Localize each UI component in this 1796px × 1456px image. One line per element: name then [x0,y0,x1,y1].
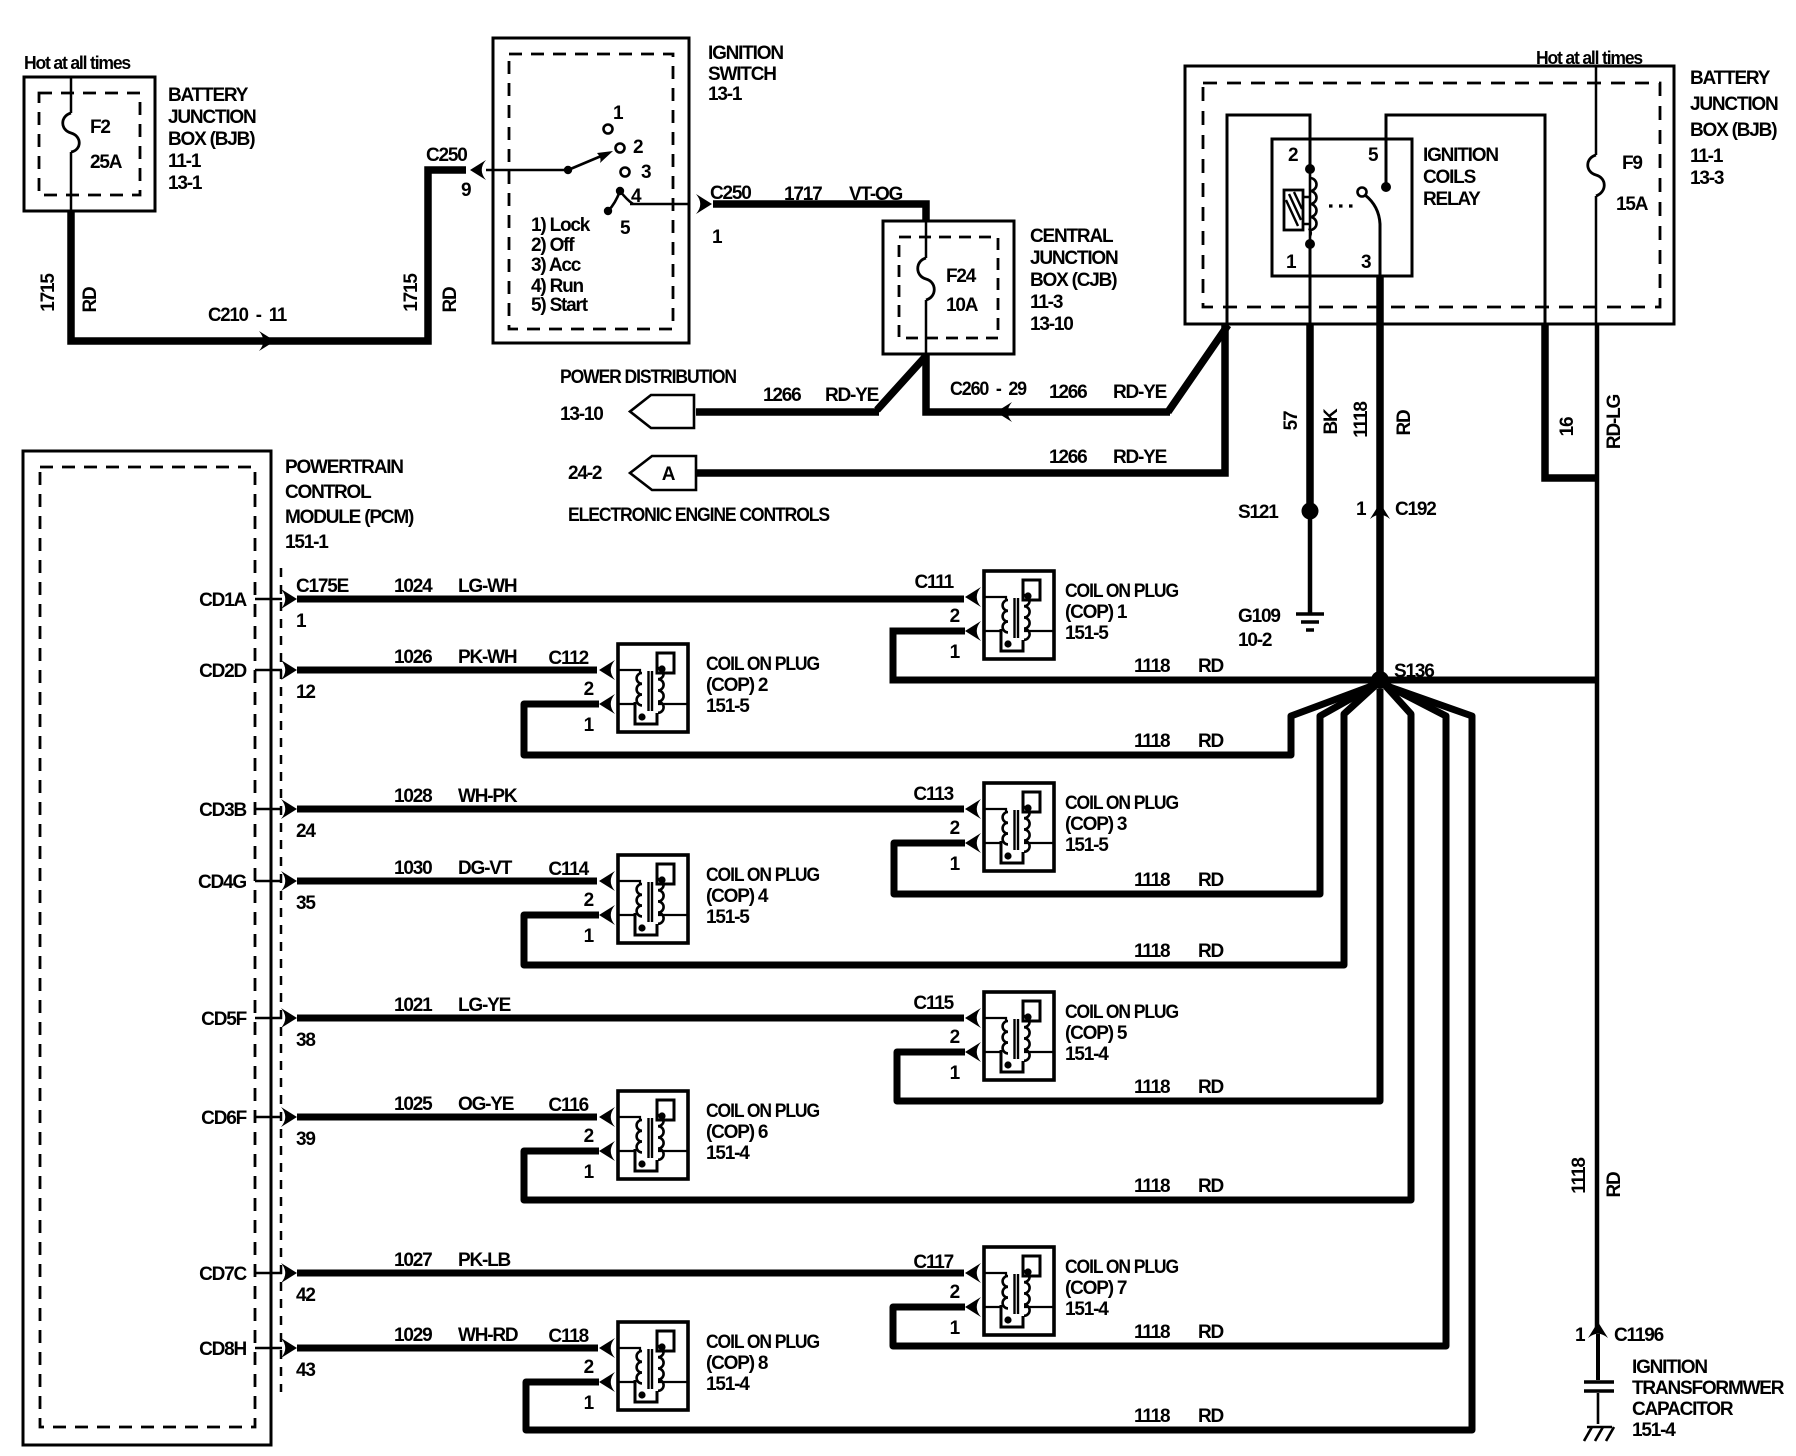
pentagon flag: A (ELECTRONIC ENGINE CONTROLS) [630,456,696,490]
svg-text:C111: C111 [914,572,954,593]
svg-text:RD-YE: RD-YE [825,385,879,406]
ground G109 symbol [1296,614,1324,630]
svg-text:(COP) 1: (COP) 1 [1065,602,1128,623]
svg-text:COIL ON PLUG: COIL ON PLUG [1065,793,1178,814]
wire 1715 RD: BJB down and across to C210-11 and up to C250 [71,170,466,341]
svg-text:JUNCTION: JUNCTION [168,107,256,128]
svg-text:1118: 1118 [1351,402,1372,438]
svg-text:C210 - 11: C210 - 11 [208,305,288,326]
svg-text:JUNCTION: JUNCTION [1030,248,1118,269]
svg-text:1028: 1028 [394,786,432,807]
svg-text:IGNITION: IGNITION [708,43,783,64]
svg-text:1118: 1118 [1134,1077,1170,1098]
wire 1118 RD: COP2 pin 1 return to S136 [524,684,1377,755]
wire 1026 PK-WH: CD2D to C112 [297,667,597,674]
svg-text:COILS: COILS [1423,167,1476,188]
svg-text:WH-RD: WH-RD [458,1325,518,1346]
svg-text:RD: RD [80,287,101,313]
switch contact 2 [616,144,625,153]
svg-text:A: A [662,464,676,485]
connector arrow C250 pin 9 (left of ignition switch) [470,160,486,180]
wire: fuse F24 output to box bottom [925,300,928,354]
svg-text:2) Off: 2) Off [531,235,575,256]
svg-text:F2: F2 [90,117,110,138]
wire: fuse F2 output inside BJB [70,152,73,211]
svg-text:1: 1 [296,611,307,632]
svg-text:CD4G: CD4G [198,872,246,893]
wire 1118 RD: COP3 pin 1 return to S136 [894,684,1377,894]
svg-text:1026: 1026 [394,647,432,668]
svg-text:1: 1 [584,715,595,736]
svg-text:42: 42 [296,1285,315,1306]
switch contact 4 [616,187,624,195]
svg-text:RD: RD [1198,1406,1224,1427]
svg-text:57: 57 [1281,411,1302,430]
wire 1266 RD-YE: to POWER DISTRIBUTION [696,357,925,412]
svg-text:DG-VT: DG-VT [458,858,513,879]
svg-text:BOX (CJB): BOX (CJB) [1030,270,1117,291]
svg-text:16: 16 [1557,417,1578,436]
svg-text:1: 1 [712,227,723,248]
svg-text:CD5F: CD5F [201,1009,246,1030]
svg-text:C118: C118 [548,1326,588,1347]
svg-text:1: 1 [584,926,595,947]
svg-text:1: 1 [950,642,961,663]
svg-text:CD7C: CD7C [199,1264,247,1285]
svg-text:1024: 1024 [394,576,433,597]
relay switch contact circle [1358,188,1367,197]
svg-text:C1196: C1196 [1614,1325,1664,1346]
svg-text:RD: RD [1198,1322,1224,1343]
svg-text:1118: 1118 [1569,1158,1590,1194]
svg-text:F24: F24 [946,266,977,287]
switch contact 4-5 hook [608,191,633,211]
svg-text:POWER DISTRIBUTION: POWER DISTRIBUTION [560,367,736,388]
fuse F24 10A [918,258,935,300]
wire 1025 OG-YE: CD6F to C116 [297,1114,597,1121]
node: relay pin 2 junction [1305,164,1315,174]
svg-text:13-10: 13-10 [1030,314,1073,335]
svg-text:13-1: 13-1 [168,173,203,194]
svg-text:1: 1 [950,1063,961,1084]
wire: F9 output down through box [1595,196,1598,324]
svg-text:CONTROL: CONTROL [285,482,372,503]
node: splice S121 [1302,503,1319,520]
svg-text:1715: 1715 [401,273,422,312]
svg-text:39: 39 [296,1129,315,1150]
connector arrow C210-11 [259,331,275,351]
svg-text:1) Lock: 1) Lock [531,215,591,236]
pentagon flag: POWER DISTRIBUTION 13-10 [630,395,694,428]
svg-text:2: 2 [950,606,960,627]
svg-text:CENTRAL: CENTRAL [1030,226,1114,247]
label: IGNITION SWITCH 13-1 [708,43,783,105]
svg-text:3) Acc: 3) Acc [531,255,582,276]
svg-text:1266: 1266 [1049,382,1087,403]
svg-text:CD3B: CD3B [199,800,246,821]
svg-text:1118: 1118 [1134,1322,1170,1343]
node: splice S136 [1371,671,1389,689]
svg-text:11-1: 11-1 [168,151,202,172]
node: PCM pin CD2D [199,660,315,703]
label: IGNITION COILS RELAY [1423,145,1498,210]
connector arrow C192 pin 1 [1370,503,1390,519]
svg-text:COIL ON PLUG: COIL ON PLUG [1065,1257,1178,1278]
svg-text:C115: C115 [913,993,954,1014]
node: PCM pin CD4G [198,871,316,914]
svg-text:24-2: 24-2 [568,463,602,484]
svg-text:CAPACITOR: CAPACITOR [1632,1399,1734,1420]
svg-text:ELECTRONIC ENGINE CONTROLS: ELECTRONIC ENGINE CONTROLS [568,505,829,526]
svg-text:CD6F: CD6F [201,1108,246,1129]
svg-text:(COP) 4: (COP) 4 [706,886,769,907]
coil on plug (COP) 1 [914,571,1178,663]
svg-text:151-4: 151-4 [706,1374,750,1395]
node: relay pin 5 junction [1381,182,1391,192]
svg-text:SWITCH: SWITCH [708,64,776,85]
svg-text:1: 1 [1286,252,1297,273]
svg-text:10-2: 10-2 [1238,630,1272,651]
wire: S121 to ground G109 [1308,511,1313,613]
wire 16 RD-LG: relay pin 5 rail below box with jog [1545,324,1597,478]
wire: feed into fuse F2 [70,77,73,113]
switch wiper pivot [564,166,572,174]
svg-text:2: 2 [584,1126,594,1147]
ignition coils relay housing box [1272,139,1412,276]
coil on plug (COP) 3 [913,783,1178,875]
wire 1266 RD-YE: A flag to relay box corner [696,324,1225,473]
svg-text:10A: 10A [946,295,979,316]
svg-text:25A: 25A [90,152,123,173]
switch wiper arrowhead [597,151,613,163]
switch contact 1 [604,125,613,134]
svg-text:RD: RD [1198,656,1224,677]
svg-text:RELAY: RELAY [1423,189,1481,210]
central junction box (CJB) outer box [883,221,1014,354]
svg-text:S136: S136 [1394,661,1434,682]
svg-text:13-10: 13-10 [560,404,603,425]
svg-text:151-4: 151-4 [1065,1044,1109,1065]
label: IGNITION TRANSFORMWER CAPACITOR 151-4 [1632,1357,1785,1441]
svg-text:2: 2 [633,137,643,158]
svg-text:CD1A: CD1A [199,590,247,611]
svg-text:BOX (BJB): BOX (BJB) [1690,120,1777,141]
svg-text:COIL ON PLUG: COIL ON PLUG [1065,581,1178,602]
powertrain control module (PCM) inner dashed box [40,467,255,1427]
svg-text:(COP) 5: (COP) 5 [1065,1023,1128,1044]
svg-text:JUNCTION: JUNCTION [1690,94,1778,115]
battery junction box (BJB) top-right inner dashed box [1203,83,1660,307]
svg-text:WH-PK: WH-PK [458,786,518,807]
connector arrow C250 pin 1 (right of ignition switch) [696,194,712,214]
svg-text:38: 38 [296,1030,315,1051]
svg-text:1: 1 [950,1318,961,1339]
svg-text:5) Start: 5) Start [531,295,589,316]
node: PCM pin CD1A [199,589,307,632]
wire 1118 RD: COP7 pin 1 return to S136 [893,684,1446,1346]
svg-text:COIL ON PLUG: COIL ON PLUG [1065,1002,1178,1023]
svg-text:1118: 1118 [1134,941,1170,962]
svg-text:C114: C114 [548,859,589,880]
svg-text:RD: RD [1198,870,1224,891]
svg-text:151-4: 151-4 [1632,1420,1676,1441]
svg-text:(COP) 7: (COP) 7 [1065,1278,1127,1299]
wire 1024 LG-WH: CD1A to C111 [297,596,964,603]
svg-text:43: 43 [296,1360,315,1381]
coil on plug (COP) 4 [584,855,820,947]
wire: relay pin 5 feed route (right inner rail) [1386,115,1545,324]
svg-text:LG-WH: LG-WH [458,576,517,597]
svg-text:CD2D: CD2D [199,661,246,682]
powertrain control module (PCM) outer box [23,451,271,1445]
label: switch position list 1) Lock ... 5) Start [531,215,591,316]
svg-text:COIL ON PLUG: COIL ON PLUG [706,1332,819,1353]
svg-text:1027: 1027 [394,1250,432,1271]
svg-text:OG-YE: OG-YE [458,1094,514,1115]
svg-text:11-1: 11-1 [1690,146,1724,167]
svg-text:1118: 1118 [1134,1176,1170,1197]
svg-text:TRANSFORMWER: TRANSFORMWER [1632,1378,1785,1399]
svg-text:C250: C250 [426,145,467,166]
svg-text:C260 - 29: C260 - 29 [950,379,1027,400]
svg-text:3: 3 [1361,252,1371,273]
svg-text:C192: C192 [1395,499,1436,520]
wire 1021 LG-YE: CD5F to C115 [297,1015,964,1022]
svg-text:1021: 1021 [394,995,433,1016]
svg-text:1030: 1030 [394,858,432,879]
connector arrow C260-29 [996,402,1012,422]
svg-text:RD: RD [1604,1172,1625,1198]
label: POWERTRAIN CONTROL MODULE (PCM) 151-1 [285,457,414,553]
svg-text:S121: S121 [1238,502,1279,523]
svg-text:(COP) 6: (COP) 6 [706,1122,768,1143]
central junction box (CJB) inner dashed box [899,237,998,338]
wire 1029 WH-RD: CD8H to C118 [297,1345,598,1352]
svg-text:1118: 1118 [1134,870,1170,891]
wire 1717 VT-OG: switch to CJB [713,204,926,222]
wire: relay pin 2 feed route (left inner rail) [1227,115,1310,324]
svg-text:151-5: 151-5 [1065,835,1109,856]
battery junction box (BJB) top-left inner dashed box [39,93,140,195]
svg-text:1: 1 [1575,1325,1586,1346]
svg-text:13-1: 13-1 [708,84,743,105]
node: PCM pin CD6F [201,1107,315,1150]
svg-text:1266: 1266 [763,385,801,406]
svg-text:3: 3 [641,162,651,183]
fuse F9 15A [1588,155,1605,196]
svg-text:COIL ON PLUG: COIL ON PLUG [706,865,819,886]
svg-text:13-3: 13-3 [1690,168,1724,189]
svg-text:1118: 1118 [1134,731,1170,752]
wire 1118 RD: relay pin 3 down to S136 [1376,276,1384,680]
svg-text:151-5: 151-5 [706,696,750,717]
wire: F9/pin5 junction down the right side to C1196 [1595,324,1600,1330]
svg-text:12: 12 [296,682,315,703]
wire: F9 feed from box top [1595,66,1598,155]
svg-text:RD-YE: RD-YE [1113,447,1167,468]
wire 1027 PK-LB: CD7C to C117 [297,1270,964,1277]
svg-text:(COP) 2: (COP) 2 [706,675,768,696]
svg-text:Hot at all times: Hot at all times [24,53,131,73]
wire 1118 RD: COP1 pin 1 return to S136 bus [893,631,1597,680]
svg-text:C116: C116 [548,1095,588,1116]
svg-text:LG-YE: LG-YE [458,995,511,1016]
relay coil-to-arm dotted link [1329,204,1359,207]
svg-text:1: 1 [1356,499,1367,520]
svg-text:PK-WH: PK-WH [458,647,517,668]
svg-text:C113: C113 [913,784,953,805]
svg-text:2: 2 [1288,145,1298,166]
wire 1030 DG-VT: CD4G to C114 [297,878,597,885]
connector arrow C1196 pin 1 [1588,1322,1608,1338]
wire: relay pin 1 inside box [1309,244,1312,324]
svg-text:2: 2 [584,1357,594,1378]
svg-text:PK-LB: PK-LB [458,1250,511,1271]
svg-text:1: 1 [584,1393,595,1414]
ignition switch outer box [493,38,689,343]
svg-text:24: 24 [296,821,316,842]
ignition switch inner dashed box [509,54,673,329]
capacitor C1196 plates [1584,1382,1614,1391]
fuse F2 25A [63,113,80,152]
svg-text:RD-LG: RD-LG [1604,395,1625,450]
node: PCM pin CD8H [199,1338,315,1381]
switch contact 5 [604,207,612,215]
svg-text:BATTERY: BATTERY [1690,68,1771,89]
battery junction box (BJB) top-left outer box [24,77,155,211]
coil on plug (COP) 6 [584,1091,820,1183]
wire: thin lead into ignition switch wiper [486,169,568,172]
svg-text:BOX (BJB): BOX (BJB) [168,129,255,150]
svg-text:1: 1 [613,103,624,124]
svg-text:1: 1 [950,854,961,875]
svg-text:1118: 1118 [1134,656,1170,677]
label: CENTRAL JUNCTION BOX (CJB) 11-3 13-10 [1030,226,1118,335]
svg-text:MODULE (PCM): MODULE (PCM) [285,507,414,528]
label: BATTERY JUNCTION BOX (BJB) 11-1 13-1 [168,85,256,194]
wire 1266 RD-YE: CJB to ignition coils relay box corner [926,325,1228,412]
svg-text:9: 9 [461,180,471,201]
svg-text:C175E: C175E [296,576,349,597]
svg-text:11-3: 11-3 [1030,292,1063,313]
svg-text:1025: 1025 [394,1094,433,1115]
svg-text:151-5: 151-5 [1065,623,1109,644]
wire: C1196 to capacitor [1596,1334,1600,1380]
coil on plug (COP) 2 [584,644,820,736]
wire: CJB feed into fuse F24 [925,221,928,258]
svg-text:(COP) 8: (COP) 8 [706,1353,768,1374]
svg-text:POWERTRAIN: POWERTRAIN [285,457,403,478]
svg-text:F9: F9 [1622,153,1642,174]
svg-text:2: 2 [584,890,594,911]
wire: capacitor to chassis ground [1597,1393,1600,1424]
svg-text:C117: C117 [913,1252,953,1273]
connector C175E dashed face line [280,568,283,1392]
svg-text:5: 5 [1368,145,1379,166]
battery junction box (BJB) top-right outer box [1185,66,1674,324]
svg-text:1029: 1029 [394,1325,432,1346]
svg-text:2: 2 [950,1282,960,1303]
svg-text:BATTERY: BATTERY [168,85,249,106]
svg-text:IGNITION: IGNITION [1632,1357,1707,1378]
svg-text:2: 2 [584,679,594,700]
svg-text:IGNITION: IGNITION [1423,145,1498,166]
svg-text:RD: RD [1198,941,1224,962]
svg-text:1118: 1118 [1134,1406,1170,1427]
chassis ground symbol (C1196) [1584,1427,1614,1441]
switch wiper arm pointing at contact 2 [568,154,606,170]
svg-text:G109: G109 [1238,606,1280,627]
svg-text:2: 2 [950,818,960,839]
svg-text:151-4: 151-4 [1065,1299,1109,1320]
wire 57 BK: relay pin 1 to S121 [1306,324,1314,511]
node: PCM pin CD7C [199,1263,315,1306]
svg-text:35: 35 [296,893,316,914]
wire 1118 RD: COP4 pin 1 return to S136 [524,683,1378,965]
svg-text:RD: RD [1394,410,1415,436]
svg-text:RD: RD [1198,1176,1224,1197]
svg-text:(COP) 3: (COP) 3 [1065,814,1127,835]
svg-text:5: 5 [620,218,631,239]
coil on plug (COP) 7 [913,1247,1178,1339]
label: BATTERY JUNCTION BOX (BJB) 11-1 13-3 [1690,68,1778,189]
wire 1118 RD: COP6 pin 1 return to S136 [524,683,1411,1200]
wire 1118 RD: COP8 pin 1 return to S136 [526,685,1472,1430]
node: PCM pin CD3B [199,799,316,842]
relay coil winding [1309,169,1312,244]
relay switch arm [1365,195,1380,276]
wire 1118 RD: COP5 pin 1 return to S136 [897,689,1380,1101]
svg-text:RD: RD [440,287,461,313]
svg-text:RD-YE: RD-YE [1113,382,1167,403]
svg-text:1715: 1715 [38,273,59,312]
svg-text:COIL ON PLUG: COIL ON PLUG [706,654,819,675]
svg-text:151-1: 151-1 [285,532,329,553]
switch contact 3 [621,168,630,177]
svg-text:4) Run: 4) Run [531,276,584,297]
svg-text:COIL ON PLUG: COIL ON PLUG [706,1101,819,1122]
wire: switch output to box edge [630,203,689,206]
svg-text:2: 2 [950,1027,960,1048]
coil on plug (COP) 8 [584,1322,820,1414]
svg-text:151-4: 151-4 [706,1143,750,1164]
svg-text:1: 1 [584,1162,595,1183]
label: G109 10-2 [1238,606,1280,651]
svg-text:RD: RD [1198,1077,1224,1098]
svg-text:1266: 1266 [1049,447,1087,468]
svg-text:RD: RD [1198,731,1224,752]
coil on plug (COP) 5 [913,992,1178,1084]
svg-text:15A: 15A [1616,194,1649,215]
node: PCM pin CD5F [201,1008,315,1051]
svg-text:151-5: 151-5 [706,907,750,928]
svg-text:CD8H: CD8H [199,1339,246,1360]
wire 1028 WH-PK: CD3B to C113 [297,806,964,813]
relay coil body rectangle [1284,190,1303,230]
node: relay pin 1 junction [1305,239,1315,249]
svg-text:BK: BK [1321,408,1342,435]
svg-text:C112: C112 [548,648,588,669]
